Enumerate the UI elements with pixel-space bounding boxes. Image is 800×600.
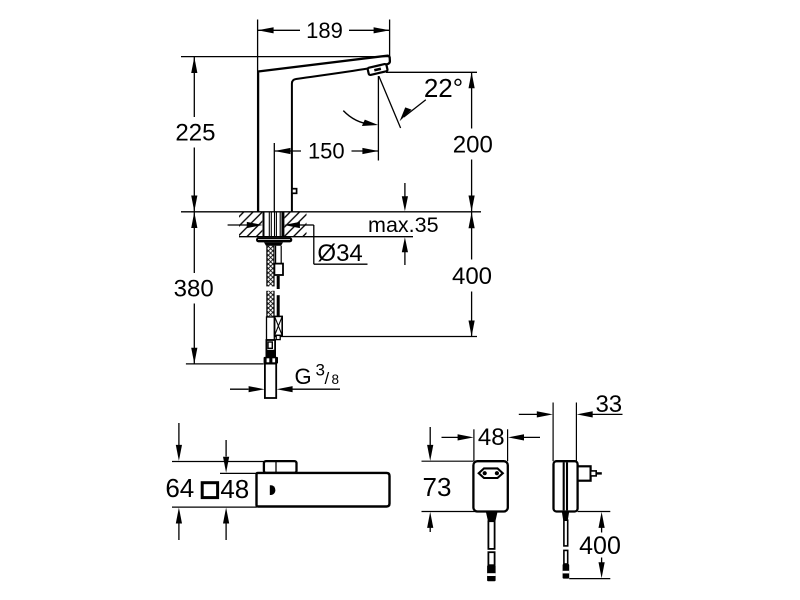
- leader arrow for 22 degrees: [395, 100, 426, 121]
- flange lower step: [264, 242, 283, 245]
- wire extension line 48 psu left: [473, 429, 475, 461]
- wire extension line 48 top (plan): [220, 472, 257, 474]
- label G3/8: [295, 361, 340, 390]
- shank outer walls: [264, 212, 284, 237]
- outlet tube G3/8: [265, 364, 276, 398]
- dimension G3/8 arrows: [230, 386, 340, 392]
- svg-text:400: 400: [579, 532, 621, 560]
- cable dark segment 1: [277, 276, 280, 289]
- sensor window plan: [270, 485, 276, 495]
- counter hatched block left: [239, 212, 262, 236]
- svg-text:8: 8: [332, 372, 340, 387]
- wire extension line 200 top: [386, 71, 477, 73]
- psu side body: [554, 461, 578, 511]
- svg-text:max.35: max.35: [368, 213, 439, 237]
- dimension 64 arrows: [176, 423, 182, 540]
- mounting flange: [256, 237, 292, 242]
- wire extension line 400 bottom: [273, 336, 478, 338]
- wire 22 degree slant line: [379, 76, 401, 128]
- dimension 189 line: [258, 27, 390, 33]
- wire extension line 73 bottom: [422, 511, 487, 513]
- psu plug pin: [591, 471, 602, 476]
- connection nut: [264, 357, 278, 364]
- svg-text:G: G: [295, 364, 312, 389]
- svg-text:33: 33: [595, 391, 622, 418]
- counter hatched block right: [285, 212, 307, 236]
- temperature lever plan: [264, 461, 297, 473]
- dimension 225 line: [191, 57, 197, 212]
- psu front strain relief: [486, 512, 498, 522]
- wire extension line 380 bottom: [186, 363, 264, 365]
- wire extension line 48 psu right: [507, 429, 509, 461]
- psu front cable upper: [488, 521, 494, 549]
- euro socket face: [479, 468, 503, 478]
- aerator at spout tip: [367, 64, 387, 76]
- wire aerator vertical reference line: [377, 76, 379, 161]
- psu side cable upper: [564, 520, 568, 546]
- shank inner tubes: [269, 212, 282, 237]
- dimension diameter 34 arrows: [228, 222, 314, 228]
- svg-text:73: 73: [423, 472, 452, 502]
- dimension 48 psu arrows: [442, 434, 541, 440]
- square symbol: [202, 483, 217, 498]
- svg-text:400: 400: [452, 263, 492, 290]
- dimension 48 arrows (plan): [223, 440, 229, 540]
- wire extension line 189 left: [257, 20, 259, 72]
- wire extension line 64 top: [172, 461, 264, 463]
- wire extension line 189 right: [389, 20, 391, 57]
- dimension 400 line (faucet): [469, 212, 475, 336]
- psu front cable connector: [487, 565, 496, 581]
- cable dark segment 2: [277, 295, 280, 316]
- svg-text:150: 150: [308, 139, 345, 164]
- psu side cable lower: [564, 550, 568, 564]
- hose smooth tube: [267, 317, 275, 340]
- wire extension line bottom (plan): [172, 506, 257, 508]
- wire leader line diameter 34: [314, 225, 368, 264]
- svg-text:225: 225: [175, 119, 215, 146]
- wire counter bottom line: [239, 236, 413, 238]
- psu side cable connector: [563, 564, 570, 579]
- wire extension line 150 left: [273, 143, 275, 212]
- svg-text:48: 48: [220, 474, 249, 504]
- svg-text:380: 380: [174, 275, 214, 302]
- electrical cable tube upper: [276, 246, 282, 264]
- cable clip: [274, 264, 283, 275]
- svg-text:22°: 22°: [424, 73, 463, 103]
- wire top level reference line: [181, 56, 390, 58]
- dimension max.35 arrows: [402, 183, 408, 265]
- wire extension line 33 right: [575, 403, 577, 462]
- braided supply hose lower segment: [267, 291, 274, 317]
- psu front cable lower: [488, 552, 494, 565]
- dimension 380 line: [191, 212, 197, 364]
- dimension 200 line: [469, 72, 475, 211]
- wire extension line 400 psu top: [578, 511, 611, 513]
- psu plug boss: [578, 466, 591, 480]
- psu side strain relief: [562, 512, 569, 521]
- faucet body outline: [258, 56, 390, 213]
- dimension 400 psu arrows: [599, 512, 605, 578]
- flow arc arrow: [343, 111, 378, 129]
- wire extension line 33 left: [552, 403, 554, 462]
- svg-text:64: 64: [165, 473, 194, 503]
- hose end fitting: [266, 340, 275, 357]
- wire extension line 73 top: [422, 460, 474, 462]
- psu front body: [473, 461, 507, 511]
- dimension 73 arrows: [427, 427, 433, 532]
- wire extension line 400 psu bottom: [569, 578, 610, 580]
- svg-text:Ø34: Ø34: [317, 240, 362, 267]
- svg-text:48: 48: [478, 424, 505, 451]
- svg-text:189: 189: [306, 18, 343, 43]
- faucet body plan: [257, 473, 390, 507]
- svg-text:200: 200: [453, 131, 493, 158]
- faucet body inner edge: [292, 68, 369, 212]
- wire counter top line: [181, 211, 481, 213]
- braided supply hose upper segment: [267, 246, 274, 287]
- svg-text:/: /: [325, 369, 330, 388]
- cable connector block: [275, 316, 283, 339]
- dimension 150 line: [275, 148, 379, 154]
- dimension 33 arrows: [519, 411, 623, 417]
- lever tab on column: [292, 189, 297, 194]
